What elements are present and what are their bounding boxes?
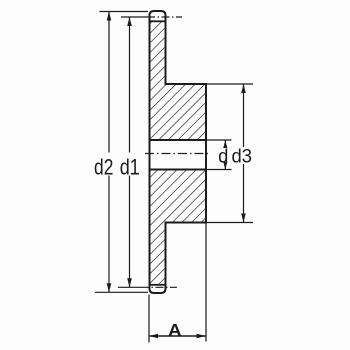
tooth root line top — [150, 20, 166, 22]
extension line d3 hub top — [206, 83, 253, 85]
A left extension line — [148, 295, 150, 343]
svg-text:d3: d3 — [231, 145, 251, 166]
hatched lower section (rim + hub below bore) — [150, 170, 207, 285]
A arrow right — [197, 334, 207, 339]
A arrow left — [149, 334, 158, 339]
hatched upper section (rim + hub above bore) — [150, 21, 207, 140]
pitch centerline top (dash-dot through tooth) — [121, 16, 182, 18]
pitch centerline bottom (dash-dot through tooth) — [118, 286, 177, 288]
svg-text:A: A — [168, 319, 182, 339]
section outline — [150, 11, 207, 293]
d2 arrow down — [107, 283, 112, 292]
dimension line d2 — [108, 12, 110, 293]
extension line d bore bottom — [206, 169, 232, 171]
A right extension line — [205, 224, 207, 342]
svg-text:d2: d2 — [94, 156, 113, 180]
d3 arrow up — [241, 84, 246, 93]
d arrow up — [223, 141, 227, 149]
dimension line d — [224, 140, 226, 170]
dimension line A — [149, 335, 206, 337]
dimension line d3 — [243, 84, 245, 223]
d3 arrow down — [241, 214, 246, 223]
bore top line — [150, 139, 207, 141]
d2 top extension line — [100, 11, 149, 13]
d1 arrow up — [127, 17, 132, 26]
d1 arrow down — [127, 278, 132, 287]
d2 arrow up — [107, 12, 112, 21]
bore bottom line — [150, 169, 207, 171]
bore axis centerline (dash-dot) — [145, 153, 211, 155]
svg-text:d: d — [218, 145, 228, 166]
extension line d bore top — [206, 139, 232, 141]
d2 bottom extension line — [95, 291, 148, 293]
dimension line d1 — [129, 17, 131, 287]
tooth root line bottom — [150, 284, 166, 286]
svg-text:d1: d1 — [120, 156, 140, 180]
d arrow down — [223, 162, 227, 170]
extension line d3 hub bottom — [206, 222, 253, 224]
